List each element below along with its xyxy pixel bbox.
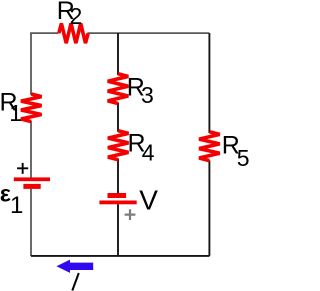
wire R2 to top-right corner	[87, 32, 209, 34]
wire top-left to R2	[31, 33, 58, 34]
plus sign of e1	[17, 163, 28, 174]
plus sign of V (gray)	[125, 209, 136, 220]
wire middle between R4 and battery V	[117, 159, 119, 194]
resistor R3 (vertical zigzag, middle branch upper)	[108, 74, 129, 104]
battery V long plate (+)	[99, 201, 136, 205]
svg-text:3: 3	[141, 82, 154, 108]
battery e1 long plate (+)	[14, 177, 50, 181]
wire right side lower (R5 to bottom corner)	[208, 160, 210, 256]
current arrow I (blue, pointing left)	[56, 260, 93, 273]
wire middle lower (battery V to bottom junction)	[117, 204, 119, 256]
resistor R5 (vertical zigzag on right wire)	[199, 132, 220, 161]
wire left side lower (battery e1 to bottom)	[30, 189, 32, 256]
wire left side upper (corner to R1)	[30, 33, 32, 95]
svg-text:4: 4	[142, 140, 155, 166]
wire right side upper (corner to R5)	[208, 33, 210, 133]
wire bottom	[31, 255, 210, 257]
resistor R4 (vertical zigzag, middle branch lower)	[108, 131, 129, 160]
svg-text:1: 1	[10, 192, 23, 219]
svg-text:1: 1	[9, 100, 22, 126]
svg-text:V: V	[139, 185, 158, 216]
wire left side middle (R1 to battery e1)	[30, 121, 32, 178]
svg-text:5: 5	[237, 145, 250, 171]
resistor R2 (horizontal zigzag on top wire)	[59, 23, 88, 43]
wire middle upper (top junction to R3)	[117, 33, 119, 75]
wire middle between R3 and R4	[117, 103, 119, 132]
resistor R1 (vertical zigzag on left wire)	[21, 94, 42, 122]
battery V short plate (-)	[108, 193, 127, 198]
svg-text:2: 2	[70, 3, 83, 29]
battery e1 short plate (-)	[23, 184, 40, 189]
label I (italic stroke)	[72, 273, 79, 291]
